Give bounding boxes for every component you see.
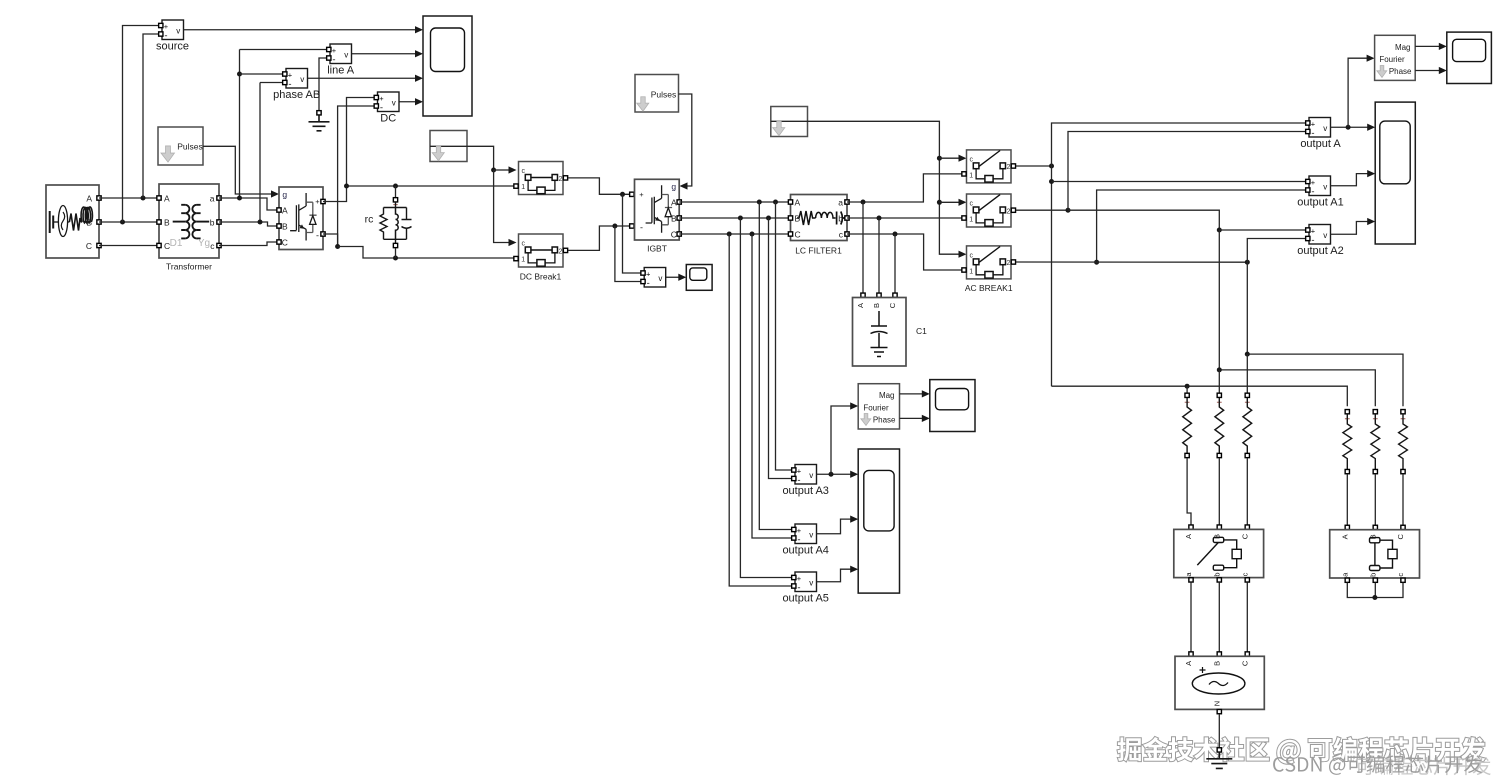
junction rail b / left resistor 2 bbox=[1217, 367, 1222, 372]
svg-text:Transformer: Transformer bbox=[166, 262, 212, 272]
Pulses2 mask down-arrow bbox=[637, 97, 649, 111]
svg-text:v: v bbox=[300, 75, 304, 84]
DC breaker1 port 2 bbox=[563, 176, 567, 180]
port + bbox=[374, 95, 378, 99]
svg-text:c: c bbox=[521, 240, 525, 247]
junction A drop to output A4 bbox=[757, 200, 762, 205]
svg-text:DC: DC bbox=[380, 113, 396, 125]
ground port bbox=[317, 111, 321, 115]
AC breaker2 port 2 bbox=[1011, 208, 1015, 212]
left load resistor 2 body bbox=[1215, 398, 1224, 453]
wire load rail phase a bbox=[1052, 386, 1348, 406]
wire rectifier - to negative node bbox=[323, 234, 338, 247]
svg-text:1: 1 bbox=[521, 257, 525, 264]
arrowhead into scope input 4 bbox=[415, 98, 423, 105]
junction phase a to output-A1 plus bbox=[1049, 179, 1054, 184]
arrowhead into mid scope input 2 bbox=[922, 415, 930, 422]
arrowhead into IGBT g bbox=[680, 182, 688, 189]
wire Pulses2 to IGBT gate bbox=[679, 94, 692, 186]
IGBT port C bbox=[677, 232, 681, 236]
three-phase switch block (bottom right) bbox=[1330, 530, 1420, 578]
left load resistor 1 body bbox=[1183, 398, 1192, 453]
svg-text:A: A bbox=[671, 198, 677, 208]
transformer port A bbox=[157, 196, 161, 200]
step subsystem block 1 bbox=[430, 131, 467, 162]
wire stub left resistor 3 bbox=[1246, 354, 1248, 393]
port - bbox=[641, 279, 645, 283]
svg-text:v: v bbox=[176, 26, 180, 35]
svg-text:B: B bbox=[282, 222, 288, 232]
C1 port C bbox=[893, 293, 897, 297]
wire output-A v to Fourier input bbox=[1348, 58, 1367, 127]
source port A bbox=[97, 196, 101, 200]
svg-text:b: b bbox=[1368, 573, 1377, 577]
arrowhead into DC-break1 c bbox=[509, 166, 517, 173]
arrowhead into big scope input 2 bbox=[1367, 170, 1375, 177]
svg-text:v: v bbox=[392, 98, 396, 107]
wire Fourier Phase to scope bbox=[1415, 70, 1439, 72]
wire source-VM plus to phase B bbox=[123, 26, 163, 223]
voltage measurement "output A2" bbox=[1309, 225, 1331, 246]
svg-text:a: a bbox=[838, 198, 843, 208]
LC filter port C bbox=[788, 232, 792, 236]
svg-text:b: b bbox=[1212, 572, 1221, 576]
wire drop B to output-A5 plus bbox=[740, 218, 792, 578]
wire to line-A-VM plus bbox=[240, 49, 331, 51]
junction control to AC-breaker1 bbox=[937, 156, 942, 161]
wire DC-break2 out to IGBT - bbox=[568, 226, 630, 250]
wire right resistor1 to block A bbox=[1346, 474, 1348, 527]
bottom source port A bbox=[1189, 652, 1193, 656]
arrowhead into g bbox=[271, 190, 279, 197]
wire drop C to output-A4 minus bbox=[752, 234, 793, 538]
svg-text:a: a bbox=[210, 194, 215, 204]
AC breaker 3 "AC BREAK1" bbox=[967, 246, 1012, 279]
LC filter port B bbox=[788, 216, 792, 220]
left load resistor 3 top port bbox=[1245, 393, 1249, 397]
svg-text:2: 2 bbox=[559, 176, 563, 183]
right load resistor 2 bottom port bbox=[1373, 469, 1377, 473]
wire phase A source-to-transformer bbox=[99, 197, 159, 199]
svg-text:Mag: Mag bbox=[1395, 43, 1411, 52]
bottom ground port bbox=[1217, 748, 1221, 752]
IGBT port B bbox=[677, 216, 681, 220]
port + bbox=[792, 468, 796, 472]
wire rc bottom stub bbox=[395, 248, 397, 258]
DC breaker1 port 1 bbox=[514, 184, 518, 188]
junction IGBT+ / VM tap bbox=[620, 192, 625, 197]
Fourier block 1 bbox=[1375, 35, 1416, 80]
bottom block2 port b bbox=[1373, 578, 1377, 582]
wire rc top stub bbox=[395, 186, 397, 197]
svg-text:v: v bbox=[1323, 182, 1327, 191]
left load resistor 3 red polarity mark bbox=[1245, 400, 1250, 405]
wire phase c to AC-breaker3 in bbox=[847, 234, 964, 270]
three-phase breaker block (bottom left) bbox=[1174, 529, 1264, 577]
svg-text:A: A bbox=[1184, 534, 1193, 539]
svg-text:output A4: output A4 bbox=[782, 545, 829, 557]
block 2 divider line bbox=[771, 120, 808, 122]
bottom breaker port B bbox=[1217, 525, 1221, 529]
AC breaker 3 "AC BREAK1" snubber bbox=[985, 272, 993, 279]
svg-text:-: - bbox=[640, 223, 643, 233]
wire to DC-break2 c bbox=[494, 170, 509, 243]
rectifier bridge block bbox=[279, 187, 323, 250]
AC breaker2 port 1 bbox=[962, 216, 966, 220]
right load resistor 1 red polarity mark bbox=[1345, 416, 1350, 421]
junction C drop to output A4 bbox=[750, 232, 755, 237]
wire left resistor1 to breaker A bbox=[1187, 458, 1191, 527]
svg-text:AC BREAK1: AC BREAK1 bbox=[965, 283, 1013, 293]
wire drop A to output-A4 plus bbox=[759, 202, 792, 530]
bottom source port B bbox=[1217, 652, 1221, 656]
wire inverter phase C bbox=[679, 233, 790, 235]
port + bbox=[792, 575, 796, 579]
rectifier IGBT/diode icon bbox=[290, 193, 317, 241]
junction b-wire measurement tap bbox=[258, 220, 263, 225]
big scope right (3-input) bbox=[1375, 102, 1415, 244]
arrowhead into small scope bbox=[678, 274, 686, 281]
Fourier2 mask down-arrow bbox=[861, 414, 871, 426]
port - bbox=[159, 32, 163, 36]
AC breaker 1 bbox=[967, 150, 1012, 183]
arrowhead into middle scope input 2 bbox=[850, 516, 858, 523]
port + bbox=[159, 23, 163, 27]
port - bbox=[1306, 188, 1310, 192]
rectifier port + bbox=[321, 199, 325, 203]
wire phase b to output-A2 plus bbox=[1219, 229, 1306, 231]
wire VM v to small scope bbox=[666, 276, 679, 278]
svg-text:DC Break1: DC Break1 bbox=[520, 272, 562, 282]
left load resistor 1 top port bbox=[1185, 393, 1189, 397]
AC breaker 3 "AC BREAK1" contact squares bbox=[973, 259, 979, 265]
wire N to ground bbox=[1218, 714, 1220, 748]
block 1 mask down-arrow bbox=[432, 146, 444, 160]
wire a to rectifier A bbox=[219, 198, 279, 210]
transformer windings icon bbox=[173, 205, 210, 239]
voltage measurement "line A" bbox=[330, 44, 352, 65]
svg-text:+: + bbox=[315, 197, 320, 206]
svg-text:Mag: Mag bbox=[879, 391, 895, 400]
AC breaker3 port 2 bbox=[1011, 260, 1015, 264]
capacitor bank block C1 bbox=[853, 298, 907, 367]
svg-text:A: A bbox=[1184, 661, 1193, 666]
right load resistor 1 bottom port bbox=[1345, 469, 1349, 473]
junction phase c / A1 minus bbox=[1094, 260, 1099, 265]
IGBT port A bbox=[677, 200, 681, 204]
wire rectifier + up to positive rail bbox=[323, 186, 347, 202]
DC breaker 2 "DC Break1" contact squares bbox=[525, 247, 531, 253]
port - bbox=[1306, 236, 1310, 240]
junction A3 v to Fourier2 bbox=[829, 472, 834, 477]
wire Pulses to rectifier gate g bbox=[203, 146, 271, 194]
AC breaker 3 "AC BREAK1" open switch blade bbox=[979, 247, 1000, 263]
svg-text:A: A bbox=[795, 198, 801, 208]
block 1 divider line bbox=[430, 145, 467, 147]
bottom block2 port c bbox=[1401, 578, 1405, 582]
junction rail c / left resistor 3 bbox=[1245, 352, 1250, 357]
arrowhead into DC-break2 c bbox=[509, 239, 517, 246]
wire line-A-VM minus to ground bbox=[319, 58, 330, 111]
voltage measurement "source" bbox=[162, 20, 184, 41]
AC breaker 2 bbox=[967, 194, 1012, 227]
wire phase C source-to-transformer bbox=[99, 245, 159, 247]
rc red polarity mark bbox=[393, 202, 397, 206]
port - bbox=[283, 80, 287, 84]
voltage measurement "output A" bbox=[1309, 118, 1331, 139]
voltage measurement "output A3" bbox=[795, 465, 817, 486]
three-phase source block bbox=[46, 185, 99, 258]
svg-text:output A2: output A2 bbox=[1297, 245, 1344, 257]
watermark CSDN overlap copy bbox=[1356, 757, 1491, 775]
arrowhead into big scope input 1 bbox=[1367, 124, 1375, 131]
wire DC-VM plus to positive rail bbox=[347, 98, 378, 187]
right load resistor 3 top port bbox=[1401, 410, 1405, 414]
pulse generator block "Pulses" bbox=[158, 127, 203, 165]
svg-text:-: - bbox=[647, 278, 650, 289]
svg-text:output A: output A bbox=[1300, 138, 1341, 150]
junction B drop to output A3 bbox=[766, 216, 771, 221]
transformer port C bbox=[157, 243, 161, 247]
wire AC-breaker2 out bbox=[1016, 209, 1068, 211]
svg-text:g: g bbox=[671, 182, 676, 192]
left load resistor 2 red polarity mark bbox=[1217, 400, 1222, 405]
port + bbox=[283, 72, 287, 76]
junction C drop to output A5 bbox=[727, 232, 732, 237]
svg-text:LC FILTER1: LC FILTER1 bbox=[795, 246, 842, 256]
wire phase a vertical to load rail bbox=[1051, 166, 1053, 386]
IGBT port - square bbox=[630, 224, 634, 228]
C1 port B bbox=[877, 293, 881, 297]
wire AC-breaker3 out bbox=[1016, 261, 1248, 263]
Fourier1 mask down-arrow bbox=[1377, 66, 1387, 78]
wire stub left resistor 2 bbox=[1218, 370, 1220, 393]
port - bbox=[792, 536, 796, 540]
port - bbox=[792, 476, 796, 480]
wire stub left resistor 1 bbox=[1186, 386, 1188, 393]
svg-text:B: B bbox=[872, 303, 881, 308]
svg-text:A: A bbox=[164, 194, 170, 204]
port - bbox=[1306, 129, 1310, 133]
wire drop B to output-A3 minus bbox=[769, 218, 793, 479]
svg-text:output A1: output A1 bbox=[1297, 197, 1344, 209]
wire tap to DC-link VM minus bbox=[615, 226, 642, 282]
source port B bbox=[97, 220, 101, 224]
svg-text:B: B bbox=[86, 218, 92, 228]
svg-text:1: 1 bbox=[969, 217, 973, 224]
arrowhead into TR scope input 2 bbox=[1439, 67, 1447, 74]
arrowhead into scope input 3 bbox=[415, 75, 423, 82]
svg-text:line A: line A bbox=[327, 65, 355, 77]
bottom block2 port C bbox=[1401, 525, 1405, 529]
junction phase a node bbox=[1049, 164, 1054, 169]
svg-text:v: v bbox=[344, 50, 348, 59]
svg-text:B: B bbox=[671, 214, 677, 224]
wire phase a to output-A1 plus bbox=[1052, 181, 1307, 183]
DC breaker2 port 2 bbox=[563, 248, 567, 252]
svg-text:v: v bbox=[809, 578, 813, 587]
IGBT inverter block bbox=[635, 179, 680, 240]
junction positive rail / rc branch bbox=[393, 184, 398, 189]
junction a-wire measurement tap bbox=[237, 196, 242, 201]
svg-text:1: 1 bbox=[521, 184, 525, 191]
wire phase a to output-A plus bbox=[1052, 123, 1307, 166]
source port C bbox=[97, 243, 101, 247]
wire phase a to AC-breaker1 in bbox=[847, 174, 964, 202]
wire drop a to C1 A bbox=[862, 202, 864, 293]
bottom block2 icon (closed switch + snubber) bbox=[1370, 538, 1398, 571]
DC breaker2 port 1 bbox=[514, 256, 518, 260]
wire source-VM minus to phase A bbox=[143, 34, 162, 198]
voltage measurement "DC" bbox=[378, 92, 400, 113]
svg-text:output A5: output A5 bbox=[782, 593, 829, 605]
svg-text:output A3: output A3 bbox=[782, 485, 829, 497]
svg-text:B: B bbox=[164, 218, 170, 228]
ground symbol bbox=[309, 115, 330, 131]
arrowhead into Fourier input bbox=[1367, 55, 1375, 62]
port + bbox=[1306, 121, 1310, 125]
svg-text:2: 2 bbox=[559, 248, 563, 255]
arrowhead into middle scope input 3 bbox=[850, 566, 858, 573]
bottom breaker port C bbox=[1245, 525, 1249, 529]
svg-text:2: 2 bbox=[1007, 164, 1011, 171]
wire source-VM v to scope bbox=[184, 29, 416, 31]
svg-text:+: + bbox=[639, 190, 644, 199]
IGBT inverter icon bbox=[646, 185, 673, 233]
AC breaker 2 open switch blade bbox=[979, 195, 1000, 211]
svg-text:C: C bbox=[1240, 533, 1249, 539]
wire vertical tap from phase b bbox=[259, 83, 261, 223]
wire phase b vertical to load rail bbox=[1218, 230, 1220, 370]
bottom block2 port a bbox=[1345, 578, 1349, 582]
small scope near IGBT bbox=[686, 265, 712, 291]
arrowhead into AC-breaker2 c bbox=[959, 199, 967, 206]
wire DC-VM minus to negative rail bbox=[338, 106, 378, 247]
junction c drop to C1 bbox=[893, 232, 898, 237]
pulse generator block "Pulses" 2 bbox=[635, 75, 679, 113]
junction IGBT- / VM tap bbox=[612, 224, 617, 229]
wire output-A v to big scope bbox=[1331, 126, 1368, 128]
wire drop b to C1 B bbox=[878, 218, 880, 293]
svg-text:C: C bbox=[1240, 660, 1249, 666]
port - bbox=[792, 584, 796, 588]
wire block2 c to star point bbox=[1375, 583, 1403, 598]
transformer port c bbox=[217, 243, 221, 247]
svg-text:c: c bbox=[969, 200, 973, 207]
bottom source port C bbox=[1245, 652, 1249, 656]
wire AC-breaker1 out bbox=[1016, 165, 1052, 167]
wire A3 v to Fourier2 input bbox=[831, 406, 851, 474]
svg-text:v: v bbox=[1323, 231, 1327, 240]
rectifier port A bbox=[277, 208, 281, 212]
svg-text:A: A bbox=[282, 206, 288, 216]
wire left resistor2 to breaker B bbox=[1218, 458, 1220, 527]
left load resistor 3 body bbox=[1243, 398, 1252, 453]
wire breaker a to source A bbox=[1190, 582, 1192, 652]
arrowhead into big scope input 3 bbox=[1367, 218, 1375, 225]
block 2 mask down-arrow bbox=[773, 121, 785, 135]
wire to AC-breaker2 c bbox=[939, 201, 958, 203]
arrowhead into Fourier2 input bbox=[850, 402, 858, 409]
LC filter port b bbox=[845, 216, 849, 220]
right load resistor 2 body bbox=[1371, 414, 1380, 469]
watermark large bbox=[1118, 737, 1486, 764]
left load resistor 3 bottom port bbox=[1245, 453, 1249, 457]
transformer port B bbox=[157, 220, 161, 224]
voltage measurement DC link bbox=[644, 268, 666, 289]
junction B / source-VM plus tap bbox=[120, 220, 125, 225]
svg-text:C: C bbox=[282, 238, 288, 248]
DC breaker 1 bbox=[519, 162, 564, 195]
wire b to rectifier B bbox=[219, 222, 279, 226]
wire negative DC rail bbox=[338, 247, 516, 259]
svg-text:C: C bbox=[86, 241, 92, 251]
DC breaker 2 "DC Break1" closed switch link bbox=[531, 249, 552, 251]
junction positive rail / DC-VM bbox=[344, 184, 349, 189]
wire block1 to breaker controls bbox=[467, 146, 494, 170]
transformer block bbox=[159, 184, 219, 258]
svg-text:-: - bbox=[316, 231, 319, 241]
transformer port b bbox=[217, 220, 221, 224]
rectifier port B bbox=[277, 224, 281, 228]
wire phase-AB-VM v to scope bbox=[308, 77, 416, 79]
svg-text:Phase: Phase bbox=[1389, 67, 1412, 76]
wire right resistor3 to block C bbox=[1402, 474, 1404, 527]
svg-text:Pulses: Pulses bbox=[651, 90, 677, 100]
port - bbox=[374, 104, 378, 108]
DC breaker 1 snubber bbox=[537, 187, 545, 194]
svg-text:Yg: Yg bbox=[198, 238, 210, 249]
port + bbox=[1306, 179, 1310, 183]
svg-text:c: c bbox=[521, 168, 525, 175]
svg-text:b: b bbox=[210, 218, 215, 228]
wire to phase-AB-VM minus bbox=[260, 82, 286, 84]
wire tap to DC-link VM plus bbox=[623, 194, 642, 273]
AC breaker 2 snubber bbox=[985, 220, 993, 227]
C1 port A bbox=[861, 293, 865, 297]
junction b drop to C1 bbox=[877, 216, 882, 221]
bottom block2 port B bbox=[1373, 525, 1377, 529]
junction A / source-VM minus tap bbox=[141, 196, 146, 201]
svg-text:c: c bbox=[1240, 572, 1249, 576]
wire vertical tap from phase a to measurement column bbox=[239, 50, 241, 199]
arrowhead into mid scope input 1 bbox=[922, 390, 930, 397]
port + bbox=[792, 527, 796, 531]
wire breaker c to source C bbox=[1246, 582, 1248, 652]
wire line-A-VM v to scope bbox=[352, 53, 416, 55]
junction B drop to output A5 bbox=[738, 216, 743, 221]
arrowhead into middle scope input 1 bbox=[850, 471, 858, 478]
DC breaker 2 "DC Break1" bbox=[519, 234, 564, 267]
wire Fourier2 Mag to scope bbox=[900, 393, 923, 395]
wire to AC-breaker1 c bbox=[939, 157, 958, 159]
junction control to AC-breaker2 bbox=[937, 200, 942, 205]
wire DC-break1 out to IGBT + bbox=[568, 178, 630, 194]
bottom breaker port c bbox=[1245, 578, 1249, 582]
wire inverter phase B bbox=[679, 217, 790, 219]
svg-text:b: b bbox=[838, 214, 843, 224]
IGBT port + square bbox=[630, 192, 634, 196]
right load resistor 2 top port bbox=[1373, 410, 1377, 414]
svg-text:rc: rc bbox=[365, 214, 374, 226]
wire block2 b to star point bbox=[1374, 583, 1376, 598]
junction negative rail / rc branch bbox=[393, 256, 398, 261]
bottom source port N bbox=[1217, 709, 1221, 713]
svg-text:C: C bbox=[671, 230, 677, 240]
junction a drop to C1 bbox=[861, 200, 866, 205]
left load resistor 2 top port bbox=[1217, 393, 1221, 397]
arrowhead into AC-breaker3 c bbox=[959, 251, 967, 258]
